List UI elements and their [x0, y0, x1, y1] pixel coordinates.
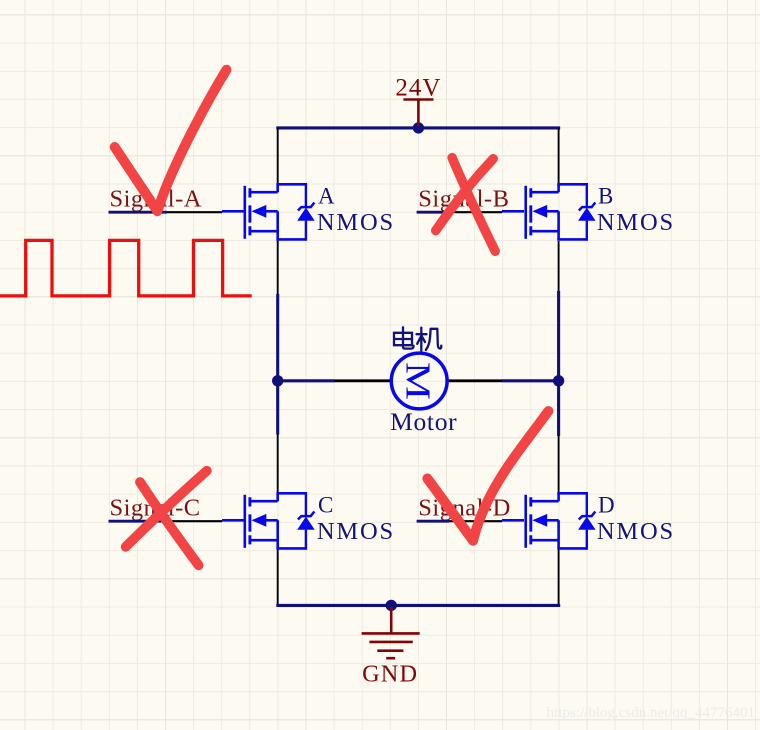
power symbol 24V: [403, 100, 433, 127]
wire Signal-C black: [167, 520, 222, 522]
wire source B to mid: [558, 241, 560, 291]
svg-text:GND: GND: [362, 661, 418, 688]
annotation X mark B: [436, 158, 496, 252]
junction top rail: [413, 122, 424, 133]
junction mid left: [272, 375, 283, 386]
wire drain A: [277, 128, 279, 184]
annotation check mark A: [115, 70, 227, 212]
waveform square wave: [0, 240, 252, 296]
svg-text:https://blog.csdn.net/qq_44776: https://blog.csdn.net/qq_44776401: [547, 705, 755, 721]
ground symbol GND: [362, 607, 420, 658]
svg-text:Signal-D: Signal-D: [418, 495, 510, 522]
wire drain B: [558, 128, 560, 184]
svg-text:NMOS: NMOS: [317, 518, 395, 545]
wire gate lead C: [222, 519, 244, 522]
svg-text:24V: 24V: [395, 75, 441, 102]
svg-text:C: C: [318, 493, 333, 518]
annotation X mark C: [126, 471, 207, 566]
transistor C NMOS: [245, 492, 315, 550]
svg-text:D: D: [598, 493, 615, 518]
wire Signal-D navy underline: [417, 520, 449, 523]
wire Signal-D black: [449, 520, 502, 522]
wire motor left navy: [278, 379, 335, 382]
junction mid right: [553, 375, 564, 386]
wire motor left black: [335, 379, 391, 382]
annotation check mark D: [427, 411, 548, 541]
svg-text:NMOS: NMOS: [597, 518, 675, 545]
transistor A NMOS: [245, 183, 315, 241]
label dianji (Chinese): [394, 327, 441, 350]
svg-text:A: A: [318, 184, 335, 209]
wire motor right navy: [502, 379, 559, 382]
wire source D to bottom rail: [558, 548, 560, 605]
wire Signal-B navy underline: [417, 211, 449, 214]
wire Signal-B black: [449, 211, 502, 213]
svg-text:NMOS: NMOS: [317, 209, 395, 236]
wire source A to mid: [277, 239, 279, 294]
wire gate lead D: [502, 519, 524, 522]
svg-text:Motor: Motor: [390, 407, 457, 436]
wire Signal-A navy underline: [109, 211, 168, 214]
wire mid right to drain D: [558, 436, 560, 493]
wire top rail (+24V net): [276, 126, 560, 129]
wire gate lead A: [222, 210, 244, 213]
svg-text:M: M: [398, 362, 437, 400]
wire mid left (navy): [276, 294, 279, 435]
wire Signal-A black: [167, 211, 222, 213]
transistor B NMOS: [526, 183, 596, 241]
svg-text:NMOS: NMOS: [597, 209, 675, 236]
svg-text:B: B: [598, 184, 613, 209]
wire mid left to drain C: [277, 435, 279, 494]
motor M circle: [391, 353, 447, 409]
wire source C to bottom rail: [277, 548, 279, 605]
junction bottom rail: [386, 600, 397, 611]
wire bottom rail (GND net): [276, 604, 560, 607]
wire gate lead B: [502, 210, 524, 213]
wire mid right (navy): [557, 291, 560, 436]
wire motor right black: [448, 379, 502, 382]
wire Signal-C navy underline: [109, 520, 168, 523]
transistor D NMOS: [526, 492, 596, 550]
